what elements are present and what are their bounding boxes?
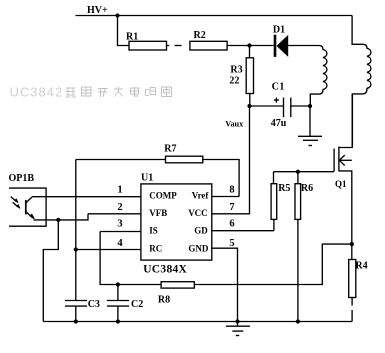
svg-text:C3: C3 xyxy=(88,299,100,310)
svg-text:UC3842: UC3842 xyxy=(10,85,64,100)
svg-text:R1: R1 xyxy=(126,32,138,43)
svg-text:R8: R8 xyxy=(158,294,170,305)
svg-text:GND: GND xyxy=(188,243,209,253)
svg-text:R6: R6 xyxy=(301,183,313,194)
svg-text:RC: RC xyxy=(149,243,162,253)
svg-text:D1: D1 xyxy=(273,24,285,35)
svg-text:22: 22 xyxy=(229,76,239,87)
svg-text:UC384X: UC384X xyxy=(143,263,187,275)
svg-text:HV+: HV+ xyxy=(87,5,108,16)
svg-text:5: 5 xyxy=(229,238,234,249)
svg-text:R3: R3 xyxy=(230,64,242,75)
svg-text:R5: R5 xyxy=(278,183,290,194)
svg-text:R7: R7 xyxy=(164,143,176,154)
svg-text:GD: GD xyxy=(194,225,208,235)
svg-text:Q1: Q1 xyxy=(335,179,347,189)
svg-text:IS: IS xyxy=(149,225,158,235)
svg-text:2: 2 xyxy=(117,202,122,213)
svg-text:R4: R4 xyxy=(355,261,367,272)
svg-text:Vaux: Vaux xyxy=(225,120,244,129)
svg-text:C1: C1 xyxy=(272,81,285,92)
svg-text:COMP: COMP xyxy=(149,190,177,200)
svg-text:3: 3 xyxy=(117,219,122,230)
svg-text:Vref: Vref xyxy=(192,191,210,201)
svg-text:8: 8 xyxy=(229,185,234,196)
svg-text:R2: R2 xyxy=(194,30,206,41)
svg-text:OP1B: OP1B xyxy=(9,173,35,184)
svg-text:1: 1 xyxy=(117,185,122,196)
svg-text:U1: U1 xyxy=(141,173,153,184)
svg-text:6: 6 xyxy=(229,219,234,230)
svg-text:4: 4 xyxy=(117,238,123,249)
svg-text:VFB: VFB xyxy=(149,208,167,218)
svg-text:7: 7 xyxy=(229,202,234,213)
svg-text:47u: 47u xyxy=(271,118,287,129)
svg-text:VCC: VCC xyxy=(188,208,208,218)
svg-text:C2: C2 xyxy=(131,299,143,310)
